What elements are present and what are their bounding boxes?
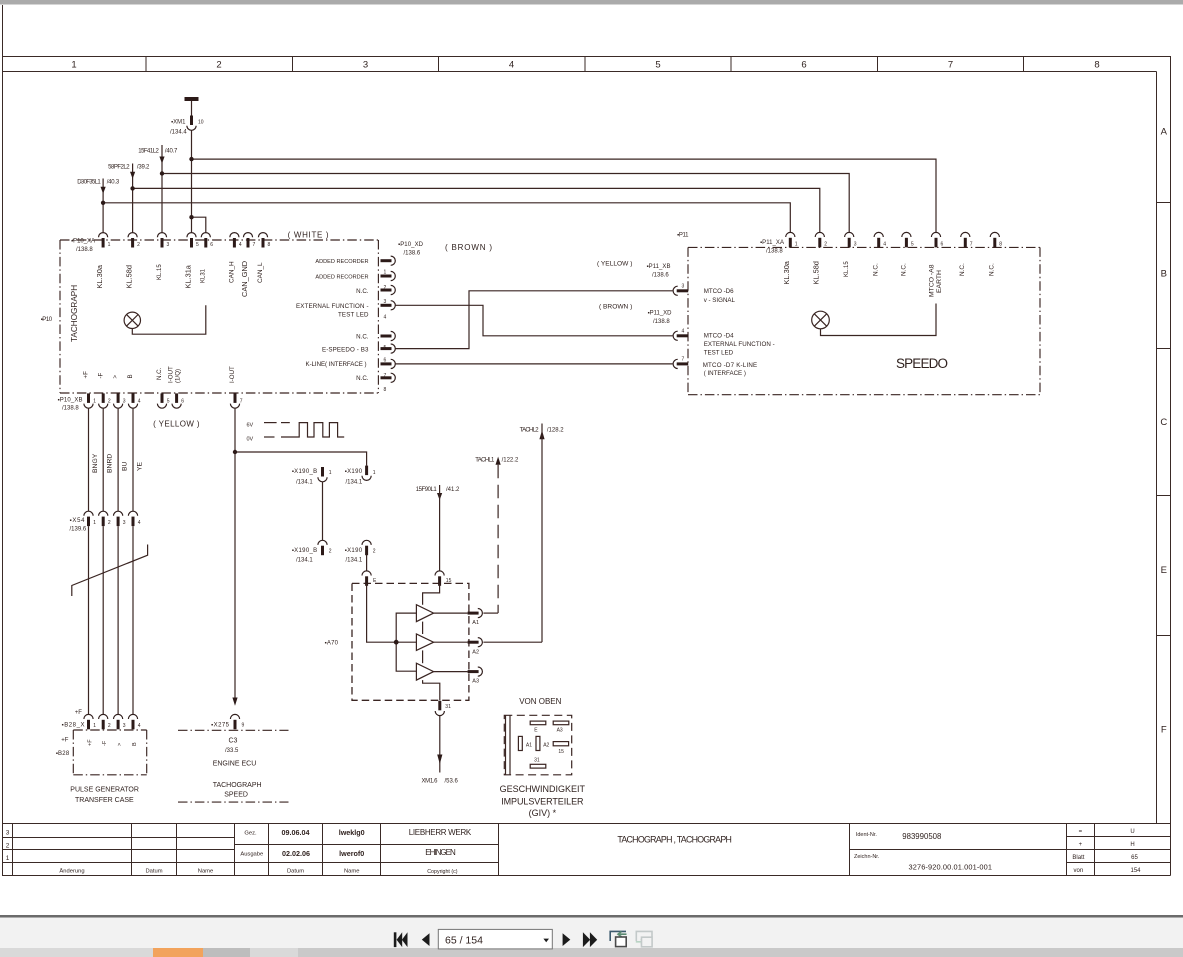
wire 15F90L1 to A70 pin 15	[439, 485, 441, 571]
svg-text:▪P11_XA: ▪P11_XA	[760, 240, 784, 246]
svg-text:( YELLOW ): ( YELLOW )	[597, 260, 632, 267]
svg-text:2: 2	[373, 549, 376, 555]
wire lamp to pin KL31	[132, 305, 206, 334]
svg-text:/128.2: /128.2	[547, 428, 564, 434]
svg-text:▪A70: ▪A70	[325, 641, 339, 647]
svg-text:5: 5	[196, 242, 199, 248]
title block vertical after Gez/Ausgabe	[268, 824, 270, 876]
svg-text:/40.3: /40.3	[107, 179, 120, 185]
wire TACHL2 vertical	[541, 424, 543, 643]
toolbar background	[0, 918, 1183, 948]
svg-text:PULSE GENERATOR: PULSE GENERATOR	[70, 787, 139, 794]
svg-text:▪P10_XB: ▪P10_XB	[58, 398, 83, 404]
svg-text:▪P10: ▪P10	[41, 317, 53, 323]
svg-text:N.C.: N.C.	[873, 263, 880, 276]
P11 SPEEDO box	[688, 247, 1040, 394]
svg-text:2: 2	[108, 399, 111, 405]
title block bottom line	[2, 875, 1171, 877]
row divider C|E	[1157, 495, 1171, 497]
svg-text:(GIV) *: (GIV) *	[529, 808, 557, 818]
svg-text:A3: A3	[557, 728, 563, 734]
svg-text:15: 15	[558, 749, 564, 755]
svg-text:TEST LED: TEST LED	[338, 311, 369, 318]
svg-text:1: 1	[93, 399, 96, 405]
buffer amplifier 2	[416, 634, 433, 650]
wire BNGY	[88, 408, 90, 511]
mini table row line 2	[1067, 849, 1171, 851]
svg-text:ENGINE ECU: ENGINE ECU	[213, 760, 257, 767]
svg-text:▪X54: ▪X54	[70, 518, 86, 524]
svg-text:6: 6	[181, 399, 184, 405]
svg-text:1: 1	[108, 242, 111, 248]
connector X275 with arrow	[232, 698, 237, 706]
wire junction to X190	[235, 452, 367, 466]
svg-text:Copyright (c): Copyright (c)	[427, 869, 458, 875]
nav next page icon	[563, 933, 571, 946]
svg-text:7: 7	[240, 399, 243, 405]
svg-text:Gez.: Gez.	[244, 830, 257, 836]
title block revision row line a	[2, 837, 235, 839]
connector A70 output A2	[468, 638, 483, 647]
svg-text:+F: +F	[75, 710, 83, 716]
wire net 30 horizontal (XM1 ground to P11 pin6)	[192, 159, 937, 233]
connector P10_XD pin 5	[381, 331, 396, 340]
toolbar separator line	[0, 915, 1183, 918]
svg-text:( YELLOW ): ( YELLOW )	[153, 420, 200, 429]
svg-text:Änderung: Änderung	[59, 867, 84, 874]
svg-text:E-SPEEDO - B3: E-SPEEDO - B3	[322, 346, 369, 353]
connector X54 pin 3	[114, 511, 123, 526]
taskbar right region	[298, 948, 1183, 957]
svg-text:C: C	[1160, 417, 1167, 428]
connector A70 output A3	[468, 667, 483, 676]
ground terminal bar above XM1	[185, 97, 199, 101]
svg-text:2: 2	[216, 60, 221, 71]
svg-text:/139.6: /139.6	[70, 527, 87, 533]
svg-text:1: 1	[93, 520, 96, 526]
wire EXTERNAL FUNCTION to P11_XD	[395, 305, 672, 336]
svg-text:15F41L2: 15F41L2	[138, 149, 159, 155]
arrow TACHL2 up	[539, 430, 544, 439]
connector P10_XA pin 4	[230, 233, 239, 248]
svg-text:TACHL1: TACHL1	[475, 458, 495, 464]
svg-text:TACHOGRAPH , TACHOGRAPH: TACHOGRAPH , TACHOGRAPH	[617, 834, 732, 844]
wire K-LINE to P11 pin 7	[395, 363, 672, 365]
GIV pin A3 blade	[553, 721, 569, 725]
connector B28_X pin 4	[128, 714, 137, 729]
wire I-OUT pin7 down	[234, 408, 236, 452]
svg-text:Datum: Datum	[145, 868, 162, 874]
P10 box right edge	[377, 240, 379, 393]
svg-text:65 / 154: 65 / 154	[445, 934, 483, 946]
connector P11 pin 7	[673, 359, 688, 368]
wires P10_XB to X54	[89, 408, 367, 702]
connector P10_XD pin 3	[381, 285, 396, 294]
svg-text:A2: A2	[543, 743, 549, 749]
wire TACHL1 dashed	[497, 465, 499, 613]
svg-text:KL.31a: KL.31a	[183, 264, 192, 288]
connector P10_XB pin 3	[114, 393, 123, 408]
svg-text:KL31: KL31	[201, 268, 207, 283]
svg-text:6: 6	[941, 242, 944, 248]
svg-text:/41.2: /41.2	[446, 487, 460, 493]
svg-text:B: B	[127, 374, 134, 378]
svg-text:5: 5	[911, 242, 914, 248]
svg-text:von: von	[1074, 868, 1084, 874]
svg-text:/138.8: /138.8	[62, 406, 79, 412]
svg-text:Ident-Nr.: Ident-Nr.	[856, 832, 878, 838]
svg-text:/138.8: /138.8	[76, 247, 93, 253]
svg-text:154: 154	[1130, 868, 1141, 874]
svg-text:▪X275: ▪X275	[211, 723, 230, 729]
connector X54 pin 4	[128, 511, 137, 526]
svg-text:9: 9	[242, 723, 245, 729]
lamp symbol in P11	[812, 311, 830, 329]
svg-text:Datum: Datum	[287, 868, 304, 874]
connector P10_XA pin 8	[258, 233, 267, 248]
wire E-SPEEDO B3 to P11_XB	[395, 291, 672, 349]
svg-text:Ausgabe: Ausgabe	[240, 852, 263, 858]
svg-text:EARTH: EARTH	[936, 270, 943, 293]
svg-text:GESCHWINDIGKEIT: GESCHWINDIGKEIT	[500, 784, 586, 794]
connector P10_XA pin 5	[187, 233, 196, 248]
P10 box top edge	[60, 239, 378, 241]
svg-text:( BROWN ): ( BROWN )	[445, 243, 492, 252]
column divider 3|4	[438, 57, 440, 72]
svg-text:4: 4	[138, 723, 141, 729]
title block vertical after Name	[234, 824, 236, 876]
junction I-OUT node	[233, 450, 237, 454]
svg-text:/39.2: /39.2	[137, 164, 150, 170]
svg-text:8: 8	[268, 242, 271, 248]
wire buffer2 to buffer3	[422, 650, 424, 663]
svg-text:8: 8	[384, 387, 387, 393]
wire jog to P10_XA pin 6	[192, 217, 206, 232]
svg-text:( BROWN ): ( BROWN )	[599, 303, 632, 310]
svg-text:▪X190_B: ▪X190_B	[292, 469, 318, 475]
junction XM1/net30	[189, 157, 193, 161]
connector X190_B pin 1	[318, 467, 327, 482]
wire buffer3 to pin 31	[423, 680, 440, 700]
svg-text:BNGY: BNGY	[92, 453, 99, 473]
svg-text:31: 31	[534, 758, 540, 764]
connector P10_XA pin 3	[157, 233, 166, 248]
svg-text:TACHOGRAPH: TACHOGRAPH	[213, 782, 262, 789]
SCHEMATIC	[103, 97, 936, 233]
wire 15F41L2 vertical to P10_XA pin3	[161, 145, 163, 233]
TITLE BLOCK	[2, 824, 1171, 876]
wire buffer1 output to A1	[434, 612, 468, 614]
connector P10_XB pin 7	[230, 393, 239, 408]
connector P11_XA pin 7	[961, 232, 970, 247]
P10 box bottom edge	[60, 392, 378, 394]
svg-text:58PF2L2: 58PF2L2	[108, 164, 130, 170]
B28 box	[73, 730, 146, 775]
svg-text:IMPULSVERTEILER: IMPULSVERTEILER	[501, 796, 584, 806]
svg-text:N.C.: N.C.	[356, 288, 369, 295]
connector P10_XB pin 6	[172, 393, 181, 408]
taskbar gray button	[203, 948, 250, 957]
svg-text:Name: Name	[198, 868, 213, 874]
svg-text:lwerof0: lwerof0	[339, 849, 364, 858]
svg-text:TRANSFER CASE: TRANSFER CASE	[75, 797, 134, 804]
taskbar orange button	[153, 948, 203, 957]
connector A70 output A1	[468, 609, 483, 618]
connector P10_XA pin 1	[99, 233, 108, 248]
connector P10_XB pin 1	[84, 393, 93, 408]
connector XM1 pin 10	[187, 116, 196, 131]
svg-text:1: 1	[6, 855, 10, 862]
svg-text:E: E	[1161, 565, 1167, 576]
svg-text:A3: A3	[472, 679, 479, 685]
wire XM1 junction down to pin5 arc	[191, 217, 193, 232]
wire BU	[117, 408, 119, 511]
GIV pin A2 blade	[536, 736, 540, 750]
svg-text:N.C.: N.C.	[356, 334, 369, 341]
svg-text:7: 7	[970, 242, 973, 248]
P10 box left edge	[59, 240, 61, 393]
svg-text:C3: C3	[229, 738, 238, 745]
svg-text:10: 10	[198, 120, 204, 126]
connector P10_XA pin 6	[201, 233, 210, 248]
svg-text:▪P11_XD: ▪P11_XD	[648, 310, 673, 316]
svg-text:YE: YE	[136, 461, 143, 471]
svg-text:XM1.6: XM1.6	[422, 779, 439, 785]
connector A70 pin 31	[435, 701, 444, 716]
svg-text:/40.7: /40.7	[165, 149, 178, 155]
mini table row line 3	[1067, 862, 1171, 864]
connector X54 pin 1	[84, 511, 93, 526]
title block top line	[2, 823, 1171, 825]
nav previous page icon	[422, 933, 430, 946]
row divider E|F	[1157, 635, 1171, 637]
svg-text:1: 1	[795, 242, 798, 248]
taskbar strip	[0, 948, 1183, 957]
svg-text:15F90L1: 15F90L1	[416, 487, 438, 493]
svg-text:Zeichn-Nr.: Zeichn-Nr.	[854, 854, 880, 860]
mini table row line 1	[1067, 836, 1171, 838]
buffer amplifier 1	[416, 605, 433, 622]
title block vertical after Aenderung	[131, 824, 133, 876]
row divider B|C	[1157, 348, 1171, 350]
wire A2 to TACHL2	[483, 641, 542, 643]
svg-text:CAN_H: CAN_H	[228, 261, 235, 283]
wire pin7 to X275	[234, 452, 236, 703]
svg-text:TACHL2: TACHL2	[520, 428, 540, 434]
connector P11_XA pin 5	[902, 232, 911, 247]
svg-text:7: 7	[253, 242, 256, 248]
arrow 15F41L2 reference	[159, 157, 164, 164]
svg-text:+F: +F	[61, 738, 69, 744]
arrow TACHL1 up	[496, 457, 501, 465]
wires X54 to B28_X	[72, 526, 148, 714]
wire ground bar to XM1 pin	[191, 101, 193, 116]
column divider 4|5	[584, 57, 586, 72]
svg-text:2: 2	[108, 723, 111, 729]
title block Gez/Ausgabe row split	[235, 844, 499, 846]
svg-text:/33.5: /33.5	[225, 748, 239, 754]
svg-text:▪B28_X: ▪B28_X	[62, 722, 85, 728]
svg-text:1: 1	[71, 60, 76, 71]
svg-text:1: 1	[93, 723, 96, 729]
connector B28_X pin 2	[99, 714, 108, 729]
wire D30F35L1 vertical to P10_XA pin1	[102, 179, 104, 233]
wire XM1 to junction and P10_XA pin 5	[191, 131, 193, 218]
svg-text:4: 4	[138, 520, 141, 526]
junction A70 input node	[394, 640, 399, 645]
C3 box dash-dot top	[178, 729, 289, 731]
svg-text:4: 4	[239, 242, 242, 248]
wire buffer2 output to A2	[434, 641, 468, 643]
svg-text:TACHOGRAPH: TACHOGRAPH	[70, 285, 79, 342]
svg-text:983990508: 983990508	[902, 832, 941, 841]
svg-text:02.02.06: 02.02.06	[282, 849, 310, 858]
svg-text:A: A	[1161, 127, 1168, 138]
connector P10_XD pin 1	[381, 256, 396, 265]
title block revision row line b	[2, 849, 235, 851]
buffer amplifier 3	[416, 663, 433, 680]
junction 15F41L2/KL.15	[160, 171, 164, 175]
wire A70 E to junction	[367, 583, 417, 642]
svg-text:31: 31	[445, 704, 451, 710]
connector P11_XA pin 8	[990, 232, 999, 247]
svg-text:+F: +F	[83, 371, 90, 379]
arrow 15F90L1 reference	[437, 493, 442, 500]
svg-text:CAN_L: CAN_L	[257, 262, 264, 283]
connector X190_B pin 2	[318, 540, 327, 555]
frame outer right edge	[1170, 57, 1172, 876]
arrow D30F35L1 reference	[101, 187, 106, 194]
svg-text:2: 2	[824, 242, 827, 248]
nav first page icon	[394, 932, 408, 947]
P11 box left edge	[687, 247, 689, 394]
column divider 6|7	[877, 57, 879, 72]
GIV pin A1 blade	[518, 736, 522, 750]
svg-text:4: 4	[883, 242, 886, 248]
column divider 5|6	[730, 57, 732, 72]
connector P10_XD pin 6	[381, 344, 396, 353]
svg-text:4: 4	[138, 399, 141, 405]
connector A70 pin E	[362, 571, 371, 586]
svg-text:KL.30a: KL.30a	[782, 260, 791, 284]
svg-text:=: =	[1079, 829, 1083, 835]
title block vertical after title cell	[849, 824, 851, 876]
svg-text:2: 2	[6, 843, 10, 850]
title block vertical after dates	[322, 824, 324, 876]
C3 box dash-dot bottom	[178, 801, 289, 803]
svg-text:▪P10_XD: ▪P10_XD	[398, 242, 424, 248]
svg-text:A1: A1	[526, 743, 532, 749]
svg-text:Blatt: Blatt	[1072, 855, 1084, 861]
svg-text:U: U	[1130, 829, 1134, 835]
svg-text:4: 4	[509, 60, 514, 71]
svg-text:F: F	[1161, 725, 1167, 736]
svg-text:/53.6: /53.6	[445, 779, 459, 785]
svg-text:7: 7	[948, 60, 953, 71]
frame letter column left edge	[1156, 72, 1158, 824]
svg-text:B: B	[1161, 269, 1167, 280]
svg-text:+F: +F	[87, 739, 93, 746]
junction D30F35L1/KL.30a	[101, 201, 105, 205]
connector X190 pin 1	[362, 466, 371, 481]
svg-text:MTCO -D6: MTCO -D6	[704, 288, 734, 295]
svg-text:/138.8: /138.8	[766, 249, 783, 255]
svg-text:▪B28: ▪B28	[56, 751, 70, 757]
svg-text:D30F35L1: D30F35L1	[77, 179, 101, 185]
title block vertical before mini table	[1066, 824, 1068, 876]
P11 box top edge	[688, 246, 1040, 248]
title block label row line	[2, 862, 499, 864]
svg-text:N.C.: N.C.	[156, 367, 163, 380]
svg-text:3: 3	[123, 520, 126, 526]
connector A70 pin 15	[435, 571, 444, 586]
svg-text:1: 1	[373, 470, 376, 476]
connector P10_XB pin 4	[128, 393, 137, 408]
A70 box	[352, 583, 469, 700]
svg-text:5: 5	[167, 399, 170, 405]
svg-text:▪X190: ▪X190	[345, 469, 363, 475]
svg-text:▪XM1: ▪XM1	[171, 120, 186, 126]
GIV pin E blade	[530, 721, 546, 725]
svg-text:/134.1: /134.1	[346, 558, 363, 564]
connector P11_XA pin 1	[786, 232, 795, 247]
svg-text:0V: 0V	[247, 437, 254, 443]
column divider 7|8	[1023, 57, 1025, 72]
svg-text:H: H	[1130, 842, 1134, 848]
svg-text:>: >	[112, 375, 119, 379]
column divider 2|3	[292, 57, 294, 72]
svg-text:▪X190: ▪X190	[345, 548, 363, 554]
svg-text:Name: Name	[344, 868, 359, 874]
svg-text:ADDED RECORDER: ADDED RECORDER	[315, 259, 368, 265]
cable crossing marker	[72, 545, 148, 597]
svg-text:4: 4	[682, 329, 685, 335]
svg-text:5: 5	[655, 60, 660, 71]
svg-text:3: 3	[854, 242, 857, 248]
svg-text:>: >	[117, 743, 123, 746]
svg-text:▪P11_XB: ▪P11_XB	[647, 264, 671, 270]
wire KL.58d horizontal to P11 pin2	[133, 188, 820, 232]
svg-text:1: 1	[329, 470, 332, 476]
svg-text:A1: A1	[472, 620, 479, 626]
combo dropdown arrow	[543, 939, 549, 943]
connector X190 pin 2	[362, 540, 371, 555]
svg-text:2: 2	[137, 242, 140, 248]
svg-text:KL.15: KL.15	[844, 261, 850, 277]
svg-text:N.C.: N.C.	[959, 263, 966, 276]
svg-text:3: 3	[363, 60, 368, 71]
connector P11_XA pin 4	[874, 232, 883, 247]
svg-text:N.C.: N.C.	[356, 375, 369, 382]
svg-text:▪P11: ▪P11	[677, 232, 689, 238]
svg-text:/122.2: /122.2	[502, 458, 519, 464]
junction XM1/pin6 jog	[189, 215, 193, 219]
connector P10_XB pin 5	[157, 393, 166, 408]
svg-text:( INTERFACE ): ( INTERFACE )	[704, 370, 746, 377]
connector P10_XD pin 2	[381, 271, 396, 280]
nav last page icon	[583, 932, 597, 947]
svg-text:EXTERNAL FUNCTION -: EXTERNAL FUNCTION -	[704, 341, 775, 348]
svg-text:3: 3	[682, 284, 685, 290]
previous view icon	[610, 931, 626, 946]
svg-text:I-OUT: I-OUT	[168, 366, 175, 383]
wire KL.15 horizontal to P11 pin3	[162, 174, 849, 233]
row divider A|B	[1157, 202, 1171, 204]
connector P11_XA pin 2	[815, 232, 824, 247]
junction 58PF2L2/KL.58d	[130, 186, 134, 190]
wire buffer1 to buffer2	[422, 622, 424, 634]
svg-text:+: +	[1079, 842, 1083, 848]
